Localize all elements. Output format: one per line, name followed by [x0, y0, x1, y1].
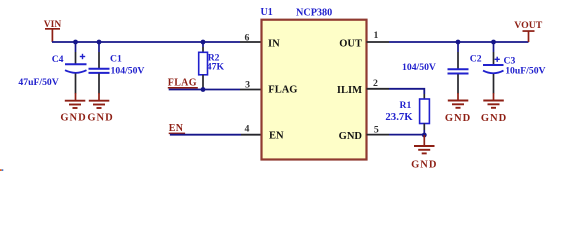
wire VOUT net horizontal	[389, 41, 529, 43]
svg-text:C2: C2	[470, 54, 482, 65]
svg-text:EN: EN	[169, 123, 184, 134]
svg-text:OUT: OUT	[339, 38, 362, 49]
svg-text:GND: GND	[481, 113, 507, 124]
svg-text:47K: 47K	[207, 62, 225, 73]
ground under C2	[445, 93, 471, 124]
ground under C1	[87, 93, 113, 124]
svg-text:FLAG: FLAG	[268, 85, 297, 96]
svg-text:10uF/50V: 10uF/50V	[505, 66, 545, 77]
svg-text:6: 6	[245, 32, 250, 43]
ground under C3	[481, 93, 507, 124]
ground under C4	[60, 93, 86, 124]
capacitor C3	[483, 42, 546, 94]
pin 4 EN	[241, 123, 284, 141]
wire EN net	[170, 134, 241, 136]
pin 1 OUT	[339, 30, 389, 50]
node junction R1/GND	[422, 133, 427, 138]
wire GND net pin5	[389, 134, 424, 136]
port FLAG	[168, 78, 198, 89]
resistor R2	[199, 42, 225, 90]
wire VIN net horizontal	[52, 41, 240, 43]
capacitor C2	[402, 42, 482, 94]
ground under R1	[411, 135, 437, 170]
svg-text:FLAG: FLAG	[168, 78, 197, 89]
svg-text:47uF/50V: 47uF/50V	[18, 77, 58, 88]
port EN	[169, 123, 185, 134]
svg-text:GND: GND	[60, 113, 86, 124]
svg-text:GND: GND	[87, 113, 113, 124]
wire ILIM net	[389, 89, 424, 99]
svg-text:104/50V: 104/50V	[402, 62, 436, 73]
svg-text:GND: GND	[339, 131, 363, 142]
resistor R1	[385, 99, 429, 135]
pin 3 FLAG	[240, 80, 297, 96]
port VIN	[44, 20, 62, 42]
svg-text:C1: C1	[110, 53, 122, 64]
svg-text:ILIM: ILIM	[337, 85, 362, 96]
op-amp U1 NCP380 body	[261, 7, 367, 160]
corner artifact bottom-left	[0, 169, 3, 171]
svg-text:GND: GND	[445, 113, 471, 124]
node junction R2/FLAG	[201, 87, 206, 92]
svg-text:VOUT: VOUT	[514, 20, 543, 31]
svg-text:NCP380: NCP380	[296, 7, 332, 18]
node junction C2	[456, 40, 461, 45]
node junction C3	[491, 40, 496, 45]
node junction C4	[73, 40, 78, 45]
pin 5 GND	[339, 125, 389, 142]
node junction R2	[201, 40, 206, 45]
svg-text:U1: U1	[261, 7, 273, 18]
svg-text:IN: IN	[268, 38, 280, 49]
svg-text:1: 1	[374, 30, 379, 41]
svg-text:5: 5	[374, 125, 379, 136]
svg-text:4: 4	[245, 123, 250, 134]
svg-text:R1: R1	[399, 100, 411, 111]
svg-text:2: 2	[373, 78, 378, 89]
svg-text:23.7K: 23.7K	[385, 111, 413, 123]
wire FLAG net	[169, 89, 240, 91]
pin 2 ILIM	[337, 78, 389, 96]
svg-text:104/50V: 104/50V	[111, 65, 145, 76]
pin 6 IN	[240, 32, 280, 49]
svg-text:GND: GND	[411, 159, 437, 170]
svg-text:3: 3	[245, 80, 250, 91]
node junction C1	[97, 40, 102, 45]
svg-text:EN: EN	[269, 130, 284, 141]
capacitor C1	[89, 42, 145, 94]
capacitor C4	[18, 42, 86, 94]
svg-text:C4: C4	[52, 54, 64, 65]
port VOUT	[514, 20, 543, 42]
